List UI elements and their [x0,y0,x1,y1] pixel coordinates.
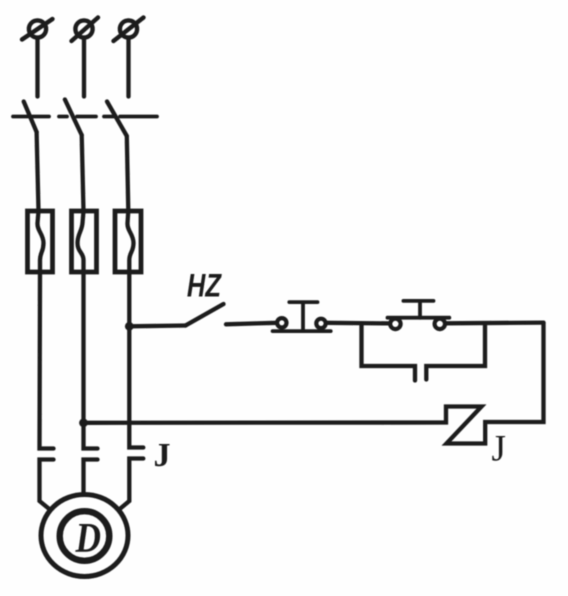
svg-text:J: J [492,429,506,470]
svg-text:D: D [75,515,101,562]
svg-text:J: J [154,437,171,474]
svg-text:HZ: HZ [187,269,222,304]
